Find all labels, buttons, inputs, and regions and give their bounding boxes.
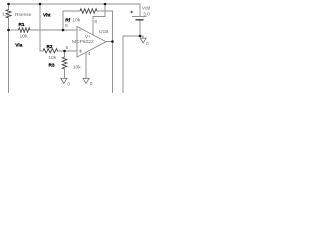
svg-text:10k: 10k	[20, 34, 28, 40]
svg-text:R1: R1	[19, 22, 25, 27]
svg-text:5: 5	[66, 45, 69, 51]
svg-text:0: 0	[146, 41, 149, 47]
svg-text:Vht: Vht	[43, 12, 51, 17]
svg-text:10k: 10k	[73, 64, 81, 70]
svg-text:10k: 10k	[72, 17, 80, 23]
svg-text:3.0V: 3.0V	[143, 12, 150, 18]
svg-text:0: 0	[90, 81, 93, 87]
svg-text:R3: R3	[49, 63, 55, 68]
svg-text:1.8: 1.8	[2, 11, 9, 17]
svg-text:6: 6	[65, 23, 68, 29]
svg-text:Vdd: Vdd	[142, 6, 150, 12]
svg-text:R2: R2	[47, 44, 53, 49]
svg-text:U1B: U1B	[99, 29, 109, 35]
svg-text:Rsense: Rsense	[15, 12, 32, 18]
svg-text:10k: 10k	[48, 55, 56, 61]
svg-text:Vla: Vla	[15, 42, 22, 47]
svg-text:4: 4	[88, 51, 91, 57]
svg-text:Rf: Rf	[65, 17, 70, 22]
svg-text:8: 8	[94, 19, 97, 25]
svg-text:0: 0	[67, 81, 70, 87]
svg-text:V+: V+	[85, 34, 91, 40]
